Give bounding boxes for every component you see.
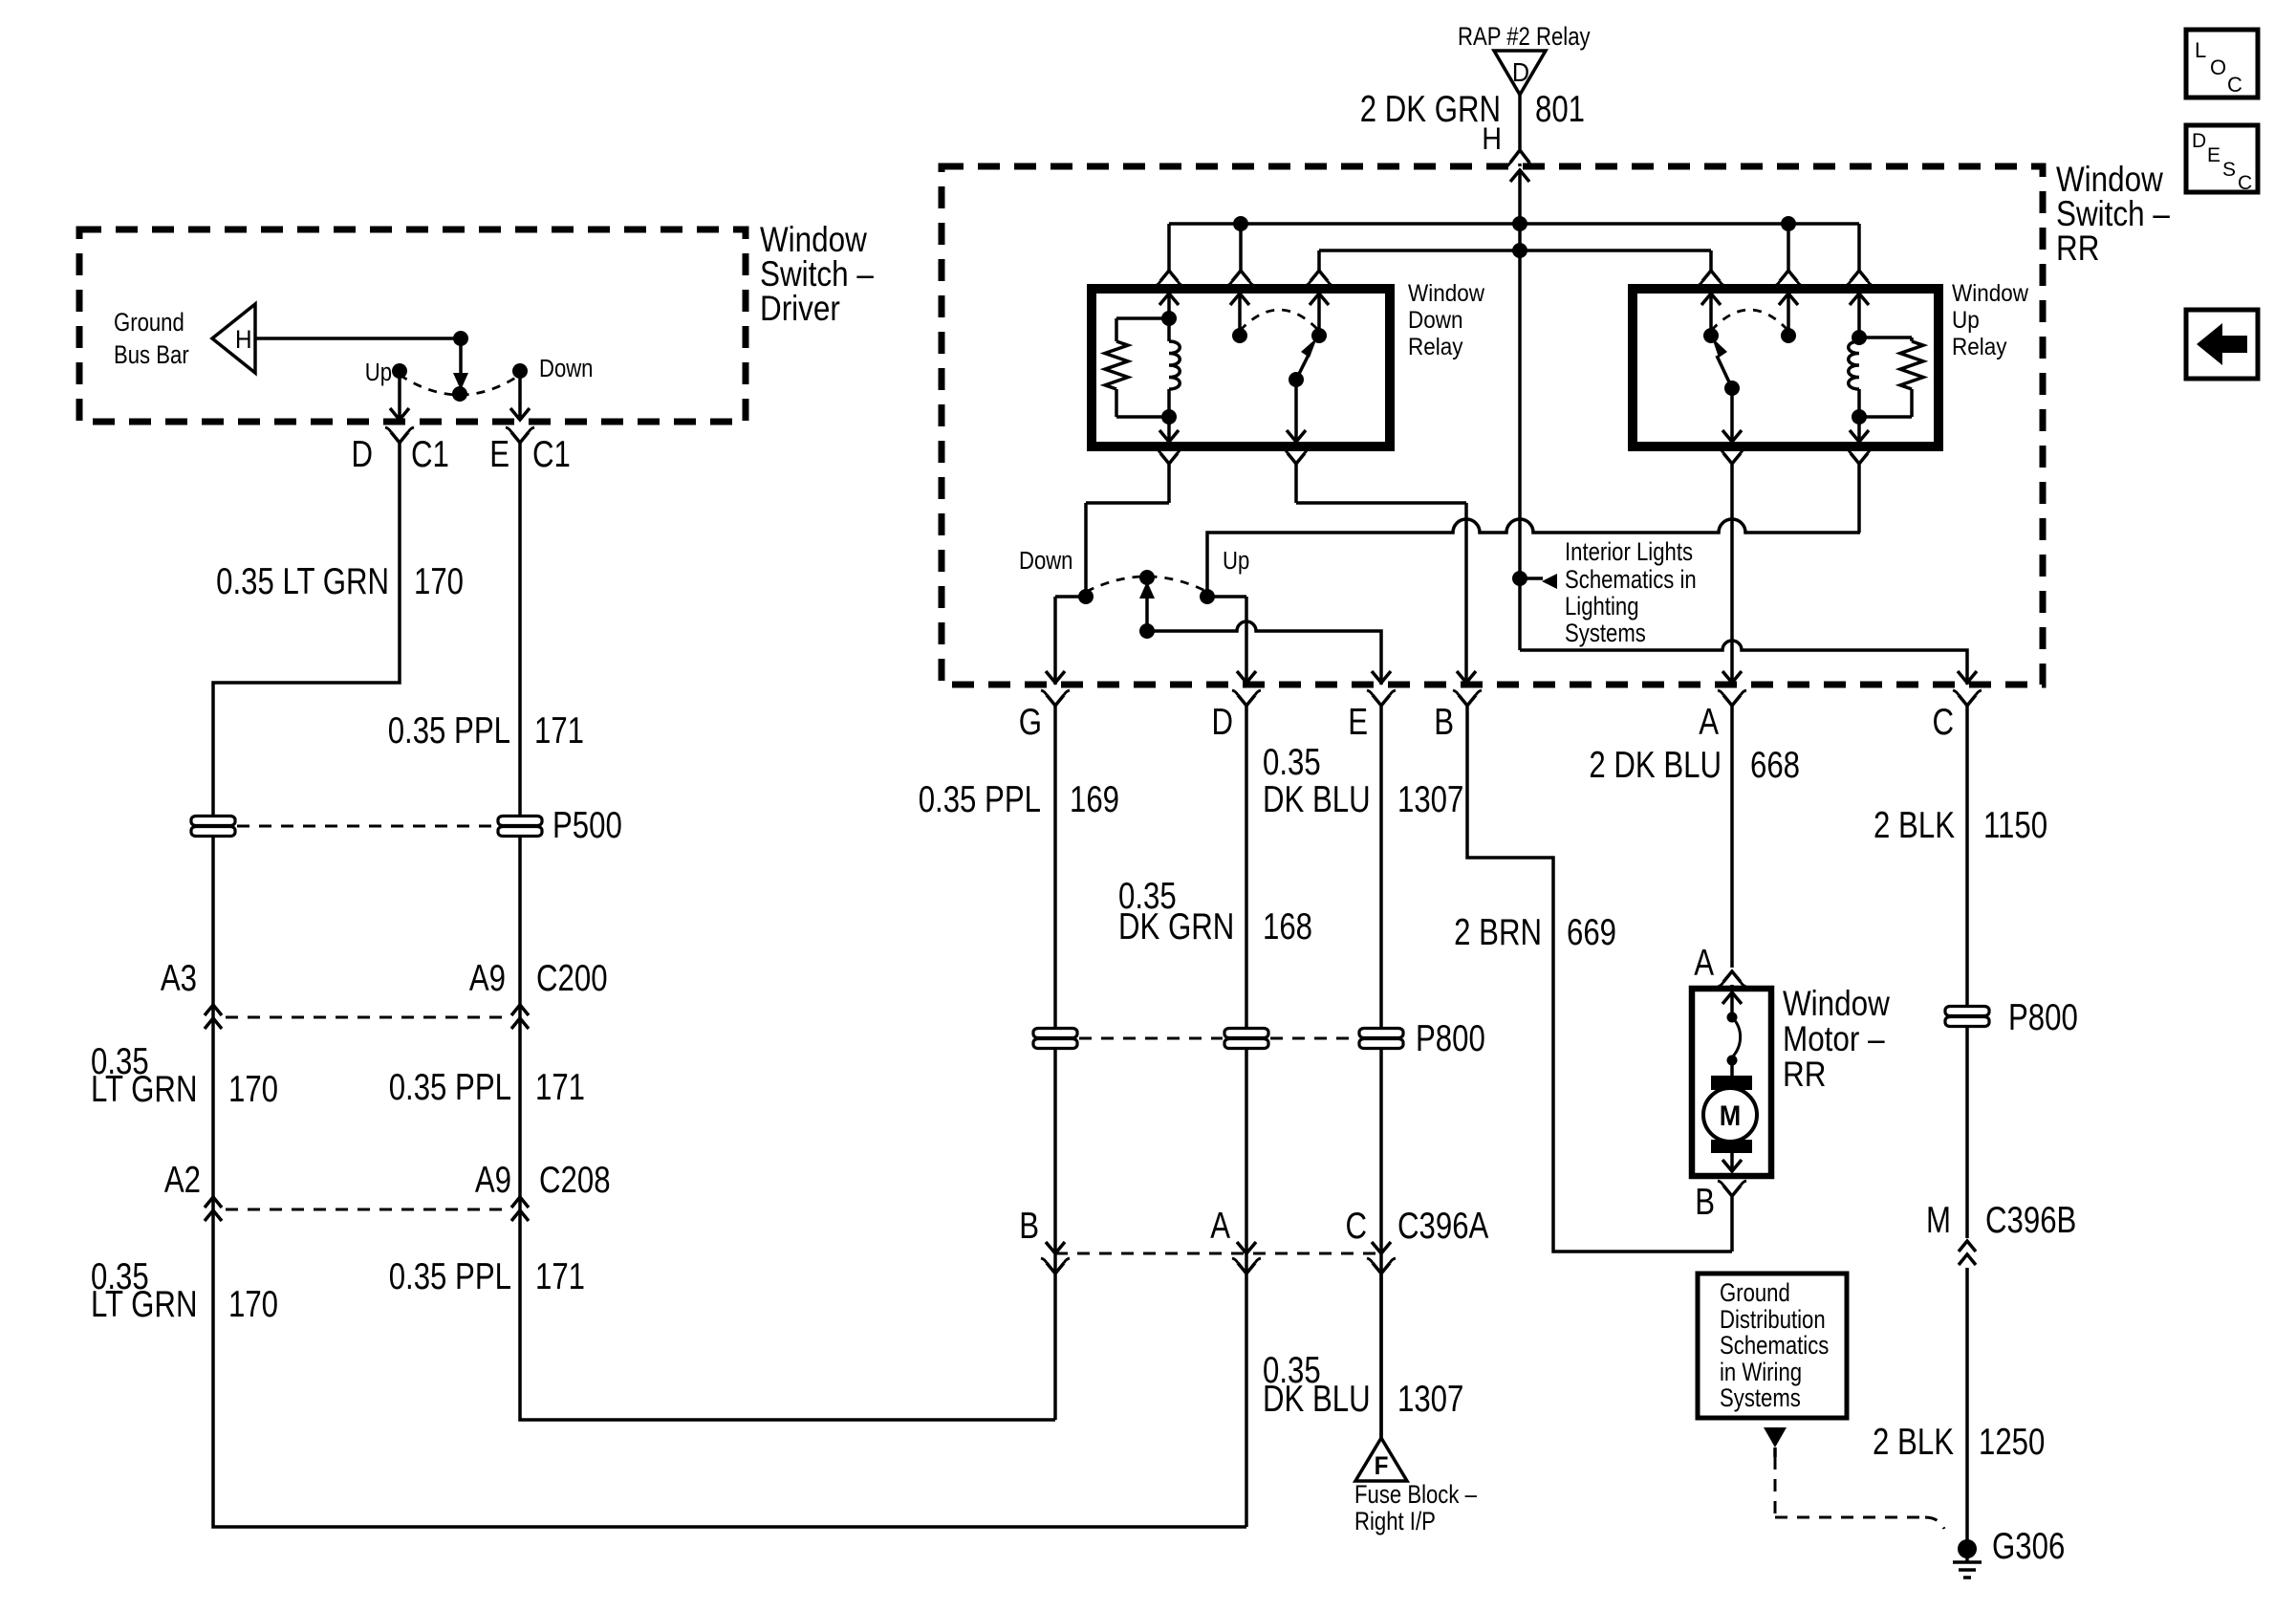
svg-text:1307: 1307 [1397,779,1463,820]
svg-text:C: C [1932,702,1954,743]
svg-text:2 BLK: 2 BLK [1874,805,1955,846]
svg-text:0.35 LT GRN: 0.35 LT GRN [216,561,389,602]
svg-text:A9: A9 [469,958,506,999]
svg-text:Switch –: Switch – [760,255,875,294]
svg-text:C: C [1345,1206,1367,1247]
svg-text:668: 668 [1750,745,1800,786]
svg-text:Systems: Systems [1720,1384,1801,1413]
svg-text:Switch –: Switch – [2056,195,2171,234]
svg-text:Window: Window [2056,161,2163,200]
svg-text:2 BRN: 2 BRN [1454,912,1542,953]
svg-text:E: E [1348,702,1368,743]
svg-text:Bus Bar: Bus Bar [114,341,189,370]
svg-text:Window: Window [1408,280,1485,307]
svg-text:801: 801 [1535,89,1585,130]
svg-text:C: C [2227,73,2242,97]
svg-text:Down: Down [539,355,593,382]
svg-text:Driver: Driver [760,290,840,329]
svg-text:D: D [1211,702,1233,743]
svg-text:D: D [2192,130,2206,152]
svg-text:0.35 PPL: 0.35 PPL [389,1067,511,1108]
svg-text:M: M [1926,1200,1951,1241]
svg-text:669: 669 [1567,912,1616,953]
svg-text:170: 170 [228,1069,278,1110]
svg-text:G: G [1019,702,1042,743]
svg-text:D: D [351,434,373,475]
svg-text:2 BLK: 2 BLK [1873,1422,1954,1463]
svg-text:C208: C208 [539,1160,611,1201]
svg-text:B: B [1019,1206,1039,1247]
svg-text:B: B [1695,1182,1715,1223]
svg-text:C200: C200 [536,958,608,999]
svg-text:0.35 PPL: 0.35 PPL [388,710,510,751]
svg-text:2 DK BLU: 2 DK BLU [1589,745,1722,786]
svg-text:Lighting: Lighting [1565,593,1639,621]
svg-text:LT GRN: LT GRN [91,1069,197,1110]
svg-text:C396B: C396B [1985,1200,2076,1241]
svg-text:171: 171 [535,1067,585,1108]
svg-text:1250: 1250 [1979,1422,2045,1463]
svg-text:P800: P800 [2008,997,2078,1038]
svg-text:Fuse Block –: Fuse Block – [1354,1481,1477,1510]
svg-text:Schematics: Schematics [1720,1332,1829,1361]
svg-text:F: F [1375,1452,1389,1480]
svg-text:A9: A9 [475,1160,511,1201]
svg-text:M: M [1720,1100,1741,1133]
svg-text:C: C [2238,172,2252,194]
svg-text:0.35 PPL: 0.35 PPL [389,1256,511,1297]
svg-text:Schematics in: Schematics in [1565,566,1697,595]
svg-text:A3: A3 [161,958,197,999]
svg-text:A: A [1694,943,1714,984]
svg-text:L: L [2195,38,2206,62]
svg-text:170: 170 [414,561,464,602]
svg-text:A: A [1210,1206,1230,1247]
svg-text:0.35: 0.35 [1263,742,1321,783]
svg-text:Window: Window [1952,280,2029,307]
svg-text:in Wiring: in Wiring [1720,1359,1802,1387]
svg-text:E: E [2207,144,2220,166]
svg-text:H: H [1482,122,1502,157]
svg-text:0.35 PPL: 0.35 PPL [919,779,1041,820]
svg-text:P500: P500 [552,805,622,846]
svg-text:B: B [1434,702,1454,743]
svg-text:G306: G306 [1992,1526,2065,1567]
svg-text:RR: RR [2056,229,2099,269]
svg-text:Window: Window [760,221,867,260]
svg-text:Interior Lights: Interior Lights [1565,538,1693,567]
svg-text:Relay: Relay [1952,334,2007,360]
svg-text:Ground: Ground [1720,1279,1790,1308]
svg-text:S: S [2222,159,2236,181]
svg-text:C1: C1 [532,434,571,475]
svg-text:LT GRN: LT GRN [91,1284,197,1325]
svg-text:171: 171 [534,710,584,751]
svg-text:RR: RR [1783,1056,1826,1095]
svg-text:171: 171 [535,1256,585,1297]
svg-text:D: D [1512,57,1529,88]
svg-text:1307: 1307 [1397,1379,1463,1420]
svg-text:168: 168 [1263,906,1312,947]
svg-text:Window: Window [1783,985,1890,1024]
svg-text:E: E [489,434,509,475]
svg-text:A: A [1699,702,1719,743]
svg-text:H: H [235,326,252,354]
svg-text:DK BLU: DK BLU [1263,1379,1371,1420]
svg-text:C396A: C396A [1397,1206,1489,1247]
svg-text:169: 169 [1070,779,1119,820]
svg-text:DK GRN: DK GRN [1118,906,1234,947]
svg-text:1150: 1150 [1983,805,2047,846]
svg-text:Relay: Relay [1408,334,1463,360]
svg-text:A2: A2 [164,1160,201,1201]
svg-text:Right I/P: Right I/P [1354,1508,1436,1536]
svg-text:Distribution: Distribution [1720,1306,1826,1335]
svg-text:Systems: Systems [1565,620,1646,648]
svg-text:O: O [2210,55,2226,79]
svg-text:C1: C1 [411,434,449,475]
svg-text:Motor –: Motor – [1783,1020,1885,1059]
svg-text:RAP #2 Relay: RAP #2 Relay [1458,23,1591,52]
svg-text:Ground: Ground [114,309,184,337]
svg-text:P800: P800 [1416,1018,1485,1059]
svg-text:Up: Up [1223,547,1249,575]
svg-text:Up: Up [365,359,392,386]
svg-text:Down: Down [1019,547,1072,575]
svg-text:DK BLU: DK BLU [1263,779,1371,820]
svg-text:170: 170 [228,1284,278,1325]
svg-text:Down: Down [1408,307,1462,334]
svg-text:Up: Up [1952,307,1980,334]
svg-text:2 DK GRN: 2 DK GRN [1360,89,1501,130]
